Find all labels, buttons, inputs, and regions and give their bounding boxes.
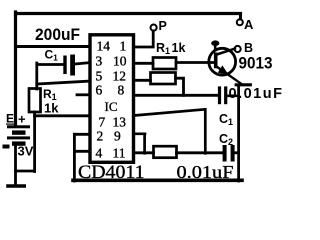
resistor R1 <box>29 89 41 113</box>
node A terminal circle <box>237 19 243 25</box>
wire pin 9 elbow <box>134 134 145 154</box>
pin 6 stub <box>77 93 90 96</box>
svg-text:200uF: 200uF <box>35 25 80 44</box>
wire pin2/pin4 vertical <box>73 134 76 181</box>
svg-text:P: P <box>159 19 167 33</box>
capacitor C2 <box>223 145 235 162</box>
ground bar <box>8 184 24 188</box>
wire long vertical to bottom rail <box>237 85 240 181</box>
resistor box3 <box>154 146 177 158</box>
svg-text:3: 3 <box>96 54 103 69</box>
wire pin 11 to box3 <box>134 151 154 154</box>
wire C2 right <box>235 151 239 154</box>
IC pin numbers <box>96 39 127 161</box>
IC box CD4011 <box>90 35 134 163</box>
node B terminal circle <box>235 46 241 52</box>
wire to pin 7 <box>35 114 91 117</box>
svg-text:R11k: R11k <box>156 41 185 56</box>
wire box3 right to C2 <box>177 151 223 154</box>
collector top ornament <box>214 45 217 49</box>
svg-text:3V: 3V <box>18 144 34 159</box>
svg-text:CD4011: CD4011 <box>78 163 145 183</box>
transistor base bar <box>214 53 218 69</box>
wire +V rail to pin 14 <box>16 45 92 48</box>
wire P stem to pin 1 <box>134 31 153 47</box>
resistor box2 <box>151 73 176 85</box>
svg-text:6: 6 <box>96 83 103 98</box>
emitter wire <box>217 67 242 85</box>
wire gnd link to R1 vertical <box>16 170 35 173</box>
capacitor C1 <box>63 55 75 76</box>
svg-text:0.01uF: 0.01uF <box>229 86 284 102</box>
wire pin 8 long <box>134 94 218 97</box>
svg-text:14: 14 <box>97 39 111 54</box>
collector wire to B <box>217 49 235 55</box>
svg-text:8: 8 <box>118 83 125 98</box>
svg-text:5: 5 <box>96 69 103 84</box>
wire pin 2 <box>74 133 90 136</box>
wire pin 12 to lower resistor <box>134 79 151 82</box>
svg-text:13: 13 <box>113 115 127 130</box>
capacitor 0.01uF top <box>218 86 227 104</box>
svg-text:11: 11 <box>113 146 126 161</box>
wire to pin 5 <box>37 81 91 84</box>
wire left rail <box>14 12 17 126</box>
svg-text:4: 4 <box>96 146 103 161</box>
wire C1 left <box>37 63 64 66</box>
wire pin 13 sloped <box>134 109 205 153</box>
node P terminal circle <box>151 25 157 31</box>
wire node vertical C1/R1 <box>35 63 38 89</box>
wire drop to terminal A <box>239 14 242 20</box>
svg-text:9: 9 <box>114 129 121 144</box>
svg-text:2: 2 <box>97 129 104 144</box>
emitter arrow <box>218 65 229 75</box>
svg-text:1k: 1k <box>44 101 59 116</box>
wire pin 10 to R 1k <box>134 62 153 65</box>
label minus <box>3 145 10 149</box>
svg-text:10: 10 <box>113 54 127 69</box>
wire cap right to vertical <box>227 95 239 98</box>
wire pin 4 <box>74 150 90 153</box>
svg-text:1: 1 <box>120 39 127 54</box>
battery E plates <box>7 125 30 145</box>
wire C1 right to pin 3 <box>75 63 91 65</box>
resistor R 1k (to base) <box>153 58 176 70</box>
transistor Q 9013 circle <box>209 48 236 75</box>
svg-text:+: + <box>18 112 26 127</box>
wire R1 bottom vertical <box>33 112 36 172</box>
svg-text:0.01uF: 0.01uF <box>177 162 234 182</box>
wire battery minus down <box>14 146 17 185</box>
emitter junction bar <box>236 83 250 86</box>
svg-text:A: A <box>244 17 254 32</box>
wire top rail <box>16 12 241 15</box>
wire box2 right down to pin8 wire <box>176 78 184 95</box>
wire R right to base <box>176 61 215 64</box>
svg-text:12: 12 <box>113 69 127 84</box>
wire bottom rail <box>73 179 242 183</box>
svg-text:IC: IC <box>105 99 118 114</box>
svg-text:9013: 9013 <box>239 54 273 73</box>
svg-text:7: 7 <box>99 115 106 130</box>
svg-text:E: E <box>6 112 14 126</box>
